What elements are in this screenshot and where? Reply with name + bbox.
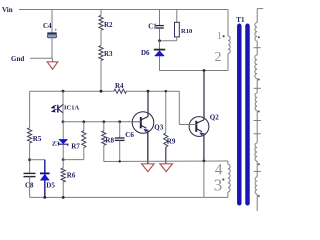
- junction Q2 emitter: [203, 160, 206, 163]
- resistor R2: [100, 10, 102, 16]
- transistor Q2: [189, 117, 209, 137]
- wire mid bus left of R4: [30, 90, 114, 92]
- zener Z3: [62, 122, 64, 139]
- svg-text:T1: T1: [236, 16, 245, 24]
- svg-text:C1: C1: [148, 23, 157, 31]
- winding phase dot (primary): [223, 35, 225, 37]
- junction R5/D5 wire: [28, 158, 31, 161]
- resistor R5: [28, 128, 32, 143]
- wire mid bus right of R4: [126, 90, 179, 92]
- wire R2-R3: [100, 30, 102, 45]
- junction LED to lower bus: [62, 120, 65, 123]
- svg-text:Q2: Q2: [210, 114, 219, 122]
- wire Q2 emitter to bottom bus: [203, 161, 205, 197]
- svg-text:Q3: Q3: [154, 124, 163, 132]
- wire Q2 base link: [178, 91, 180, 124]
- lower bus (IC1A cathode net): [63, 121, 141, 123]
- resistor R3: [99, 46, 103, 61]
- resistor R6: [62, 160, 64, 168]
- wire R5 to lower-left node: [29, 143, 31, 173]
- junction C1-R10-D6: [158, 39, 161, 42]
- transformer core bar 2: [245, 26, 250, 204]
- svg-text:R6: R6: [67, 172, 76, 180]
- svg-text:C6: C6: [125, 131, 134, 139]
- secondary winding top hook: [257, 8, 263, 10]
- svg-text:Gnd: Gnd: [11, 55, 24, 63]
- wire emitter bus: [104, 160, 228, 163]
- junction IC1A on bus: [62, 90, 65, 93]
- svg-text:IC1A: IC1A: [64, 105, 79, 112]
- wire Q2 emitter down: [203, 133, 205, 161]
- junction Z3/R7/R6: [62, 158, 65, 161]
- ground (C4/Gnd): [52, 58, 54, 62]
- wire R7 bottom link: [63, 159, 84, 161]
- svg-text:C4: C4: [43, 22, 52, 30]
- svg-text:R5: R5: [33, 135, 42, 143]
- wire: Vin top rail: [19, 9, 228, 11]
- svg-text:3: 3: [214, 175, 223, 194]
- junction snubber bus / Q2 collector: [203, 69, 206, 72]
- svg-text:1: 1: [217, 31, 222, 42]
- svg-text:2: 2: [215, 50, 222, 65]
- transistor Q3: [132, 112, 154, 134]
- wire left drop to R5: [29, 91, 31, 128]
- svg-text:D6: D6: [141, 49, 150, 57]
- capacitor C6: [118, 120, 121, 123]
- junction R3 on bus: [100, 90, 103, 93]
- svg-text:R10: R10: [181, 28, 192, 35]
- capacitor C4 branch wire: [51, 10, 53, 34]
- feedback winding pin4-pin3: [227, 161, 229, 164]
- wire to D5: [30, 159, 45, 161]
- resistor R10: [176, 10, 178, 23]
- wire rail to primary pin1: [227, 10, 229, 37]
- resistor R7: [82, 120, 85, 123]
- wire R3 to bus: [100, 61, 102, 92]
- junction Q3 collector on bus: [147, 90, 150, 93]
- secondary winding sections: [255, 23, 257, 42]
- wire Q3 emitter down: [147, 130, 149, 164]
- ground (R9): [160, 164, 173, 172]
- capacitor C8: [24, 172, 36, 174]
- ground (Q3 emitter): [142, 164, 155, 172]
- svg-text:R2: R2: [104, 21, 113, 29]
- wire D6 to snubber bus: [159, 56, 161, 71]
- diode D5: [44, 160, 46, 198]
- svg-text:R7: R7: [71, 143, 80, 151]
- wire C4 to gnd: [51, 38, 53, 58]
- capacitor C1: [159, 10, 161, 26]
- svg-text:D5: D5: [46, 182, 55, 190]
- svg-text:R8: R8: [105, 137, 114, 145]
- winding phase dot (feedback): [222, 178, 224, 180]
- svg-text:Vin: Vin: [2, 6, 13, 14]
- resistor R9: [165, 91, 167, 133]
- bottom return bus: [30, 196, 228, 198]
- transformer core bar 1: [237, 26, 242, 204]
- svg-text:R9: R9: [167, 137, 176, 145]
- opto-coupler IC1A LED: [62, 91, 64, 104]
- svg-text:R3: R3: [104, 50, 113, 58]
- wire C1/R10 join: [160, 40, 177, 42]
- resistor R8: [102, 120, 105, 123]
- primary winding pin1-pin2: [228, 36, 230, 54]
